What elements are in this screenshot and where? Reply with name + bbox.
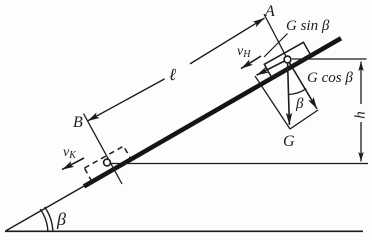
- svg-text:G sin β: G sin β: [286, 18, 330, 34]
- force arrow G sin beta (down-slope component): [257, 60, 288, 76]
- h dimension line upper segment with up arrow: [360, 62, 362, 105]
- force parallelogram side (from G sin beta tip to G tip): [255, 76, 290, 129]
- svg-text:G cos β: G cos β: [307, 70, 353, 86]
- svg-text:B: B: [73, 114, 83, 131]
- angle beta arc at block A (between G and G cos beta): [289, 89, 307, 95]
- incline thin segment (apex to start of thick surface): [6, 183, 91, 231]
- h dimension line lower segment with down arrow: [360, 122, 362, 162]
- block at position A (solid rectangle on incline): [264, 42, 311, 77]
- ground line (bottom horizontal): [5, 230, 363, 232]
- incline thick surface line: [84, 38, 341, 186]
- dimension line l, lower segment with arrow to B: [88, 79, 165, 121]
- force parallelogram side (from G cos beta tip to G tip): [290, 110, 318, 129]
- svg-text:β: β: [56, 209, 66, 229]
- dimension line l, upper segment with arrow to A: [190, 18, 265, 64]
- node circle at A (block centre of gravity): [284, 56, 291, 63]
- svg-text:h: h: [353, 111, 369, 119]
- angle beta double arc at apex: [40, 209, 48, 232]
- velocity arrow v_H: [241, 56, 261, 69]
- force arrow G (weight, vertical): [288, 60, 290, 125]
- leader line from label G sin(beta): [264, 34, 288, 58]
- horizontal line at level of A (for h): [292, 58, 367, 60]
- svg-text:ℓ: ℓ: [169, 65, 176, 84]
- node circle at B (block centre of gravity): [104, 159, 111, 166]
- extension line from A down to block centre: [264, 14, 291, 65]
- velocity arrow v_K: [62, 158, 84, 170]
- force arrow G cos beta (normal component): [288, 60, 318, 109]
- extension line from B down to block centre at B: [84, 114, 123, 185]
- block at position B (dashed rectangle on incline): [84, 146, 130, 181]
- svg-text:G: G: [283, 133, 295, 150]
- svg-text:A: A: [264, 3, 275, 20]
- svg-text:β: β: [295, 96, 304, 112]
- horizontal line at level of B (for h): [110, 163, 368, 165]
